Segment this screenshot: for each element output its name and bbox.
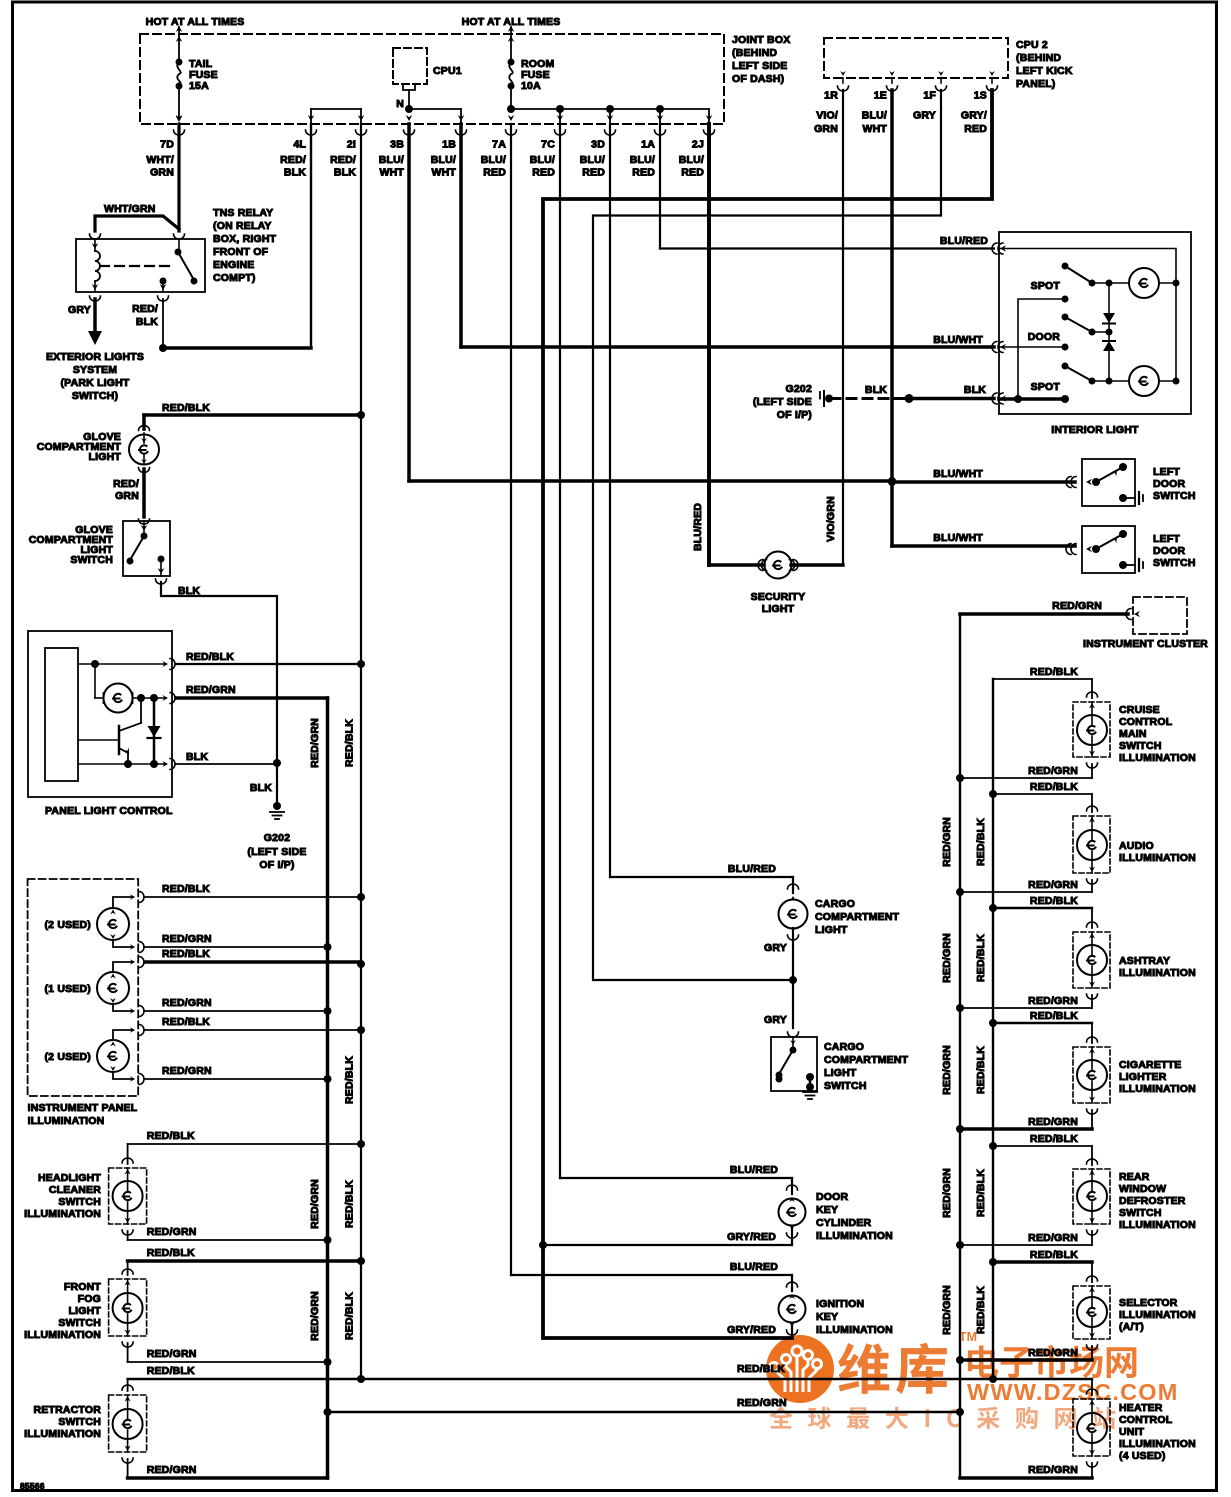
lamp CIGARETTE LIGHTER ILLUMINATION (1091, 1023, 1093, 1043)
svg-text:SWITCH: SWITCH (58, 1196, 101, 1208)
node N (408, 90, 410, 109)
svg-text:1R: 1R (824, 90, 838, 102)
junction dots on RED/GRN bus (324, 943, 332, 951)
svg-text:RED: RED (532, 167, 555, 179)
wire RED/BLK relay to pin 4L (158, 296, 169, 301)
svg-text:3B: 3B (390, 139, 404, 151)
module PANEL LIGHT CONTROL box (28, 631, 172, 797)
svg-text:RED/GRN: RED/GRN (162, 1065, 212, 1077)
wire 1B BLU/WHT to interior light (459, 124, 463, 347)
connector CPU1 (dashed box) (393, 48, 427, 84)
svg-text:BLU/: BLU/ (379, 154, 404, 166)
wire GRY to exterior lights (arrow) (90, 296, 101, 301)
svg-text:JOINT BOX: JOINT BOX (732, 34, 790, 46)
module INSTRUMENT PANEL ILLUMINATION (dashed) (28, 879, 139, 1096)
svg-text:DEFROSTER: DEFROSTER (1119, 1195, 1186, 1207)
svg-text:LEFT: LEFT (1153, 533, 1180, 545)
svg-text:RED/BLK: RED/BLK (147, 1247, 195, 1259)
lamp REAR WINDOW DEFROSTER SWITCH ILLUMINATION (1091, 1146, 1093, 1165)
svg-text:BLU/RED: BLU/RED (730, 1164, 778, 1176)
svg-text:GRY: GRY (764, 1014, 787, 1026)
svg-text:BOX, RIGHT: BOX, RIGHT (213, 233, 277, 245)
svg-text:1E: 1E (874, 90, 887, 102)
svg-text:GRY: GRY (764, 942, 787, 954)
svg-text:REAR: REAR (1119, 1171, 1150, 1183)
svg-text:SWITCH: SWITCH (1119, 1207, 1162, 1219)
svg-text:LIGHT: LIGHT (762, 603, 795, 615)
svg-text:ILLUMINATION: ILLUMINATION (1119, 967, 1196, 979)
svg-text:DOOR: DOOR (1153, 545, 1186, 557)
svg-text:(ON RELAY: (ON RELAY (213, 220, 272, 232)
svg-text:MAIN: MAIN (1119, 728, 1147, 740)
wire GRY cargo light to switch (792, 980, 794, 1028)
svg-text:RED/: RED/ (113, 478, 139, 490)
svg-text:COMPARTMENT: COMPARTMENT (815, 911, 900, 923)
svg-text:RED: RED (582, 167, 605, 179)
svg-text:BLK: BLK (250, 782, 272, 794)
svg-text:10A: 10A (521, 80, 541, 92)
watermark logo disc (766, 1335, 834, 1403)
svg-text:PANEL): PANEL) (1016, 78, 1056, 90)
svg-text:RED/GRN: RED/GRN (1028, 1232, 1078, 1244)
wire RED/GRN glove lamp to switch (142, 469, 146, 517)
svg-text:RED/BLK: RED/BLK (344, 1292, 356, 1340)
svg-text:N: N (396, 98, 404, 110)
interior light top bus BLU/RED (999, 249, 1176, 382)
svg-text:LIGHT: LIGHT (89, 451, 122, 463)
svg-text:BLU/RED: BLU/RED (728, 863, 776, 875)
svg-text:SWITCH: SWITCH (1153, 557, 1196, 569)
lamp CARGO COMPARTMENT LIGHT (792, 877, 794, 893)
lamp SECURITY LIGHT (758, 560, 763, 571)
svg-text:RED/BLK: RED/BLK (737, 1363, 785, 1375)
ground cargo switch (803, 1091, 817, 1093)
pin 2I joint box (RED/BLK) (358, 115, 365, 121)
svg-text:(BEHIND: (BEHIND (732, 47, 777, 59)
svg-text:RED/GRN: RED/GRN (941, 817, 953, 867)
svg-text:ILLUMINATION: ILLUMINATION (1119, 852, 1196, 864)
svg-text:GRY/: GRY/ (961, 110, 987, 122)
watermark text weiku (838, 1343, 889, 1394)
svg-text:UNIT: UNIT (1119, 1426, 1145, 1438)
svg-text:INSTRUMENT CLUSTER: INSTRUMENT CLUSTER (1083, 638, 1208, 650)
svg-text:OF I/P): OF I/P) (777, 409, 812, 421)
interior SPOT1 input wire (1062, 296, 1069, 303)
wire joint-box internal bus (311, 108, 361, 110)
svg-text:RED/GRN: RED/GRN (941, 1045, 953, 1095)
svg-text:CRUISE: CRUISE (1119, 704, 1160, 716)
interior DOOR input terminal (999, 346, 1065, 348)
svg-text:RED/GRN: RED/GRN (309, 718, 321, 768)
svg-text:ILLUMINATION: ILLUMINATION (24, 1428, 101, 1440)
lamp interior spot lamp 1 (1129, 268, 1159, 298)
wire BLK glove switch to G202 (156, 579, 167, 584)
svg-text:G202: G202 (786, 383, 813, 395)
svg-text:COMPT): COMPT) (213, 272, 256, 284)
pin 1S CPU 2 (GRY/RED) (991, 78, 993, 83)
svg-text:RED/BLK: RED/BLK (162, 1016, 210, 1028)
svg-text:BLU/: BLU/ (580, 154, 605, 166)
module INSTRUMENT CLUSTER (dashed) (1133, 597, 1187, 634)
pin 1E CPU 2 (BLU/WHT) (891, 78, 893, 83)
svg-text:BLU/WHT: BLU/WHT (933, 334, 983, 346)
svg-text:RED/BLK: RED/BLK (162, 948, 210, 960)
svg-text:DOOR: DOOR (1028, 331, 1061, 343)
svg-text:BLK: BLK (284, 167, 306, 179)
svg-text:RED/BLK: RED/BLK (344, 1180, 356, 1228)
svg-text:RED/GRN: RED/GRN (147, 1226, 197, 1238)
svg-text:RED/GRN: RED/GRN (147, 1348, 197, 1360)
svg-text:ILLUMINATION: ILLUMINATION (816, 1230, 893, 1242)
pin 7A joint box (BLU/RED) (508, 115, 515, 121)
svg-text:SPOT: SPOT (1031, 381, 1061, 393)
svg-text:RED/GRN: RED/GRN (1052, 600, 1102, 612)
svg-text:GRY/RED: GRY/RED (727, 1324, 776, 1336)
svg-text:HEATER: HEATER (1119, 1402, 1163, 1414)
svg-text:CPU 2: CPU 2 (1016, 39, 1048, 51)
svg-text:SWITCH: SWITCH (70, 554, 113, 566)
wire GRY/RED door key row (543, 1244, 792, 1246)
svg-text:LEFT: LEFT (1153, 466, 1180, 478)
svg-text:1S: 1S (974, 90, 987, 102)
svg-text:BLU/WHT: BLU/WHT (933, 468, 983, 480)
svg-text:(BEHIND: (BEHIND (1016, 52, 1061, 64)
svg-text:BLK: BLK (334, 167, 356, 179)
lamp RETRACTOR SWITCH ILLUMINATION (127, 1379, 129, 1391)
svg-text:CARGO: CARGO (824, 1041, 864, 1053)
lamp AUDIO ILLUMINATION (1091, 794, 1093, 812)
svg-text:ILLUMINATION: ILLUMINATION (1119, 752, 1196, 764)
svg-text:WHT: WHT (379, 167, 404, 179)
svg-text:BLU/RED: BLU/RED (692, 503, 704, 551)
svg-text:BLU/: BLU/ (679, 154, 704, 166)
switch LEFT DOOR SWITCH 2 (1082, 526, 1135, 573)
svg-text:7D: 7D (160, 139, 174, 151)
junction dots RED/GRN right bus (956, 774, 964, 782)
svg-text:ILLUMINATION: ILLUMINATION (24, 1329, 101, 1341)
lamp CRUISE CONTROL MAIN SWITCH ILLUMINATION (1091, 679, 1093, 698)
pin 1A joint box (BLU/RED) (657, 115, 664, 121)
wire RED/BLK bus from pin 2I (360, 124, 362, 1379)
wire 7C BLU/RED to door key cylinder illumination (559, 124, 561, 1178)
svg-text:GRY: GRY (913, 110, 936, 122)
svg-text:BLU/WHT: BLU/WHT (933, 532, 983, 544)
lamp GLOVE COMPARTMENT LIGHT (139, 426, 150, 431)
svg-text:SWITCH): SWITCH) (72, 390, 118, 402)
svg-text:RED/GRN: RED/GRN (162, 997, 212, 1009)
wire 1A BLU/RED to interior light (659, 124, 661, 249)
svg-text:RED/BLK: RED/BLK (1030, 1133, 1078, 1145)
svg-text:HEADLIGHT: HEADLIGHT (38, 1172, 101, 1184)
wire RED/GRN bus from panel light control (326, 698, 330, 1478)
pin 7C joint box (BLU/RED) (557, 115, 564, 121)
svg-text:ENGINE: ENGINE (213, 259, 254, 271)
svg-text:7A: 7A (492, 139, 506, 151)
pin 1B joint box (BLU/WHT) (458, 115, 465, 121)
switch DOOR (interior light) (1062, 314, 1069, 321)
lamp instrument panel bulb (2 USED) (97, 908, 129, 940)
lamp SELECTOR ILLUMINATION (A/T) (1091, 1262, 1093, 1282)
watermark slogan (769, 1406, 792, 1428)
svg-text:GRN: GRN (814, 123, 838, 135)
svg-text:FRONT OF: FRONT OF (213, 246, 269, 258)
svg-text:ILLUMINATION: ILLUMINATION (1119, 1083, 1196, 1095)
svg-text:CONTROL: CONTROL (1119, 716, 1173, 728)
svg-text:(1 USED): (1 USED) (44, 983, 91, 995)
svg-text:RED: RED (964, 123, 987, 135)
svg-text:2J: 2J (692, 139, 704, 151)
pin 2J joint box (BLU/RED) (706, 115, 713, 121)
svg-text:RED/BLK: RED/BLK (975, 934, 987, 982)
svg-text:LIGHT: LIGHT (815, 924, 848, 936)
svg-text:CARGO: CARGO (815, 898, 855, 910)
svg-text:RED/GRN: RED/GRN (1028, 1464, 1078, 1476)
svg-text:LIGHT: LIGHT (69, 1305, 102, 1317)
svg-text:LIGHTER: LIGHTER (1119, 1071, 1167, 1083)
pin 1R CPU 2 (VIO/GRN) (842, 78, 844, 83)
svg-text:(2 USED): (2 USED) (44, 1051, 91, 1063)
svg-text:(2 USED): (2 USED) (44, 919, 91, 931)
svg-text:RED/BLK: RED/BLK (147, 1130, 195, 1142)
svg-text:RED/BLK: RED/BLK (1030, 1249, 1078, 1261)
switch SPOT 2 (interior light) (1062, 363, 1069, 370)
svg-text:OF I/P): OF I/P) (259, 859, 294, 871)
svg-text:IGNITION: IGNITION (816, 1298, 864, 1310)
svg-text:RED/GRN: RED/GRN (1028, 765, 1078, 777)
diode D2 interior (upper) (1108, 283, 1110, 332)
svg-text:RED/GRN: RED/GRN (1028, 879, 1078, 891)
svg-text:VIO/: VIO/ (816, 110, 838, 122)
svg-text:RED/GRN: RED/GRN (941, 1168, 953, 1218)
svg-text:RED/BLK: RED/BLK (1030, 895, 1078, 907)
svg-text:1B: 1B (442, 139, 456, 151)
svg-text:SWITCH: SWITCH (1119, 740, 1162, 752)
wire 3B BLU/WHT to door switch row (407, 124, 411, 481)
svg-text:(LEFT SIDE: (LEFT SIDE (247, 846, 306, 858)
wire 2J BLU/RED to security light (707, 124, 711, 565)
wire 7D WHT/GRN from joint box to TNS relay (177, 124, 180, 231)
svg-text:WHT: WHT (431, 167, 456, 179)
svg-text:RED/: RED/ (280, 154, 306, 166)
svg-text:WHT: WHT (862, 123, 887, 135)
switch CARGO COMPARTMENT LIGHT SWITCH (771, 1037, 817, 1091)
svg-text:7C: 7C (541, 139, 555, 151)
svg-text:BLK: BLK (964, 384, 986, 396)
svg-text:PANEL LIGHT CONTROL: PANEL LIGHT CONTROL (45, 805, 173, 817)
svg-text:ILLUMINATION: ILLUMINATION (28, 1115, 105, 1127)
svg-text:RED/GRN: RED/GRN (737, 1397, 787, 1409)
svg-text:ILLUMINATION: ILLUMINATION (1119, 1219, 1196, 1231)
panel RED/BLK output (78, 663, 164, 665)
svg-text:(A/T): (A/T) (1119, 1321, 1144, 1333)
svg-text:2I: 2I (347, 139, 356, 151)
svg-text:RED/: RED/ (132, 303, 158, 315)
lamp ASHTRAY ILLUMINATION (1091, 908, 1093, 928)
svg-text:ILLUMINATION: ILLUMINATION (24, 1208, 101, 1220)
panel BLK output (78, 763, 164, 765)
connector CPU 2 (dashed box) (824, 38, 1008, 78)
lamp IGNITION KEY ILLUMINATION (791, 1275, 793, 1291)
svg-text:RED/: RED/ (330, 154, 356, 166)
relay coil (94, 239, 96, 251)
svg-text:GRN: GRN (150, 167, 174, 179)
svg-text:BLK: BLK (186, 751, 208, 763)
svg-text:(PARK LIGHT: (PARK LIGHT (60, 377, 129, 389)
wire RED/GRN long row (left bus to right bus) (328, 1411, 961, 1413)
svg-text:G202: G202 (264, 832, 291, 844)
svg-text:BLU/RED: BLU/RED (730, 1261, 778, 1273)
wire 7A BLU/RED to ignition key illumination (510, 124, 512, 1275)
svg-text:GRN: GRN (115, 490, 139, 502)
svg-text:SPOT: SPOT (1031, 280, 1061, 292)
svg-text:1F: 1F (923, 90, 936, 102)
svg-text:HOT AT ALL TIMES: HOT AT ALL TIMES (146, 16, 245, 28)
svg-text:FRONT: FRONT (64, 1281, 102, 1293)
svg-text:SWITCH: SWITCH (58, 1317, 101, 1329)
svg-text:RED/BLK: RED/BLK (162, 402, 210, 414)
svg-text:CYLINDER: CYLINDER (816, 1217, 871, 1229)
svg-text:RED/BLK: RED/BLK (344, 719, 356, 767)
svg-text:RED/BLK: RED/BLK (975, 1046, 987, 1094)
wire 1S GRY/RED path (543, 90, 992, 1338)
wire RED/BLK right bus (992, 679, 994, 1379)
lamp instrument panel bulb (2 USED) (97, 1040, 129, 1072)
svg-text:(LEFT SIDE: (LEFT SIDE (753, 396, 812, 408)
svg-text:RED/BLK: RED/BLK (186, 651, 234, 663)
lamp HEATER CONTROL UNIT ILLUMINATION (4 USED) (1091, 1379, 1093, 1395)
svg-text:15A: 15A (189, 80, 209, 92)
svg-text:BLU/: BLU/ (481, 154, 506, 166)
svg-text:RED: RED (632, 167, 655, 179)
svg-text:VIO/GRN: VIO/GRN (825, 496, 837, 542)
lamp HEADLIGHT CLEANER SWITCH ILLUMINATION (127, 1144, 129, 1164)
svg-text:RED/BLK: RED/BLK (1030, 781, 1078, 793)
svg-text:KEY: KEY (816, 1311, 838, 1323)
svg-text:TNS RELAY: TNS RELAY (213, 207, 273, 219)
lamp instrument panel bulb (1 USED) (97, 972, 129, 1004)
svg-text:RED/BLK: RED/BLK (147, 1365, 195, 1377)
svg-text:RETRACTOR: RETRACTOR (33, 1404, 101, 1416)
lamp interior spot lamp 2 (1129, 366, 1159, 396)
svg-text:DOOR: DOOR (816, 1191, 849, 1203)
svg-text:RED/GRN: RED/GRN (1028, 1347, 1078, 1359)
diode D1 (panel light control) (153, 698, 156, 764)
svg-text:(4 USED): (4 USED) (1119, 1450, 1166, 1462)
svg-text:RED/GRN: RED/GRN (1028, 995, 1078, 1007)
svg-text:ILLUMINATION: ILLUMINATION (1119, 1438, 1196, 1450)
svg-text:SWITCH: SWITCH (824, 1080, 867, 1092)
svg-text:KEY: KEY (816, 1204, 838, 1216)
svg-text:INTERIOR LIGHT: INTERIOR LIGHT (1051, 424, 1139, 436)
svg-text:COMPARTMENT: COMPARTMENT (824, 1054, 909, 1066)
svg-text:RED/GRN: RED/GRN (162, 933, 212, 945)
svg-text:SECURITY: SECURITY (751, 591, 806, 603)
svg-text:SELECTOR: SELECTOR (1119, 1297, 1178, 1309)
svg-text:EXTERIOR LIGHTS: EXTERIOR LIGHTS (46, 351, 144, 363)
svg-text:GRY/RED: GRY/RED (727, 1231, 776, 1243)
switch GLOVE COMPARTMENT LIGHT SWITCH (123, 521, 170, 576)
panel internal lamp (94, 664, 96, 698)
wire stubs bus to pins (310, 109, 312, 124)
svg-text:1A: 1A (641, 139, 655, 151)
svg-text:RED/BLK: RED/BLK (344, 1056, 356, 1104)
module INTERIOR LIGHT box (999, 232, 1191, 414)
svg-text:FOG: FOG (78, 1293, 101, 1305)
svg-text:INSTRUMENT PANEL: INSTRUMENT PANEL (28, 1102, 138, 1114)
lamp FRONT FOG LIGHT SWITCH ILLUMINATION (127, 1261, 129, 1275)
junction dots on RED/BLK bus (357, 411, 365, 419)
svg-text:OF DASH): OF DASH) (732, 73, 784, 85)
svg-text:CLEANER: CLEANER (49, 1184, 101, 1196)
svg-text:WINDOW: WINDOW (1119, 1183, 1166, 1195)
junction dots RED/BLK right bus (989, 790, 997, 798)
pin 3D joint box (BLU/RED) (607, 115, 614, 121)
svg-text:WHT/GRN: WHT/GRN (104, 203, 156, 215)
svg-text:GRY: GRY (68, 304, 91, 316)
interior BLK input terminal (999, 397, 1065, 401)
svg-text:RED/BLK: RED/BLK (975, 1169, 987, 1217)
pin 4L joint box (RED/BLK) (308, 115, 315, 121)
svg-text:SWITCH: SWITCH (1153, 490, 1196, 502)
ground G202 (left side of I/P) (273, 802, 281, 810)
panel RED/GRN output (133, 697, 164, 699)
pin 7D joint box (WHT/GRN) (176, 115, 183, 121)
wire 1F GRY path to cargo (593, 90, 941, 980)
watermark text dianzishichangwang (968, 1345, 998, 1377)
svg-text:RED/GRN: RED/GRN (941, 933, 953, 983)
svg-text:RED/GRN: RED/GRN (309, 1291, 321, 1341)
svg-text:LEFT SIDE: LEFT SIDE (732, 60, 787, 72)
svg-text:RED: RED (483, 167, 506, 179)
relay switch contacts (178, 239, 180, 250)
svg-text:BLK: BLK (865, 384, 887, 396)
fuse ROOM FUSE 10A (510, 34, 512, 58)
svg-text:CIGARETTE: CIGARETTE (1119, 1059, 1181, 1071)
wire 1E BLU/WHT to door switches (890, 90, 894, 546)
svg-text:85566: 85566 (20, 1481, 45, 1491)
svg-text:CONTROL: CONTROL (1119, 1414, 1173, 1426)
pin 3B joint box (BLU/WHT) (406, 115, 413, 121)
svg-text:WHT/: WHT/ (146, 154, 174, 166)
svg-text:BLU/: BLU/ (862, 110, 887, 122)
svg-text:BLU/: BLU/ (431, 154, 456, 166)
svg-text:RED/GRN: RED/GRN (941, 1285, 953, 1335)
svg-text:ILLUMINATION: ILLUMINATION (816, 1324, 893, 1336)
svg-text:SYSTEM: SYSTEM (73, 364, 117, 376)
svg-text:4L: 4L (293, 139, 306, 151)
svg-text:AUDIO: AUDIO (1119, 840, 1154, 852)
switch LEFT DOOR SWITCH 1 (1082, 459, 1135, 506)
svg-text:BLK: BLK (136, 316, 158, 328)
svg-text:RED/BLK: RED/BLK (975, 818, 987, 866)
wire 1R VIO/GRN to security light (842, 90, 844, 565)
svg-text:RED/GRN: RED/GRN (1028, 1116, 1078, 1128)
svg-text:LEFT KICK: LEFT KICK (1016, 65, 1073, 77)
relay TNS RELAY box (90, 234, 101, 239)
wire 3D BLU/RED to cargo compartment light (609, 124, 611, 877)
switch SPOT 1 (interior light) (1062, 263, 1069, 270)
lamp DOOR KEY CYLINDER ILLUMINATION (791, 1178, 793, 1194)
svg-text:CPU1: CPU1 (433, 65, 462, 77)
svg-text:RED/BLK: RED/BLK (1030, 666, 1078, 678)
svg-text:SWITCH: SWITCH (58, 1416, 101, 1428)
diode D3 interior (lower) (1108, 332, 1110, 381)
pin 1F CPU 2 (GRY) (940, 78, 942, 83)
svg-text:BLU/: BLU/ (630, 154, 655, 166)
svg-text:RED/GRN: RED/GRN (309, 1179, 321, 1229)
svg-text:ASHTRAY: ASHTRAY (1119, 955, 1170, 967)
svg-text:RED: RED (681, 167, 704, 179)
